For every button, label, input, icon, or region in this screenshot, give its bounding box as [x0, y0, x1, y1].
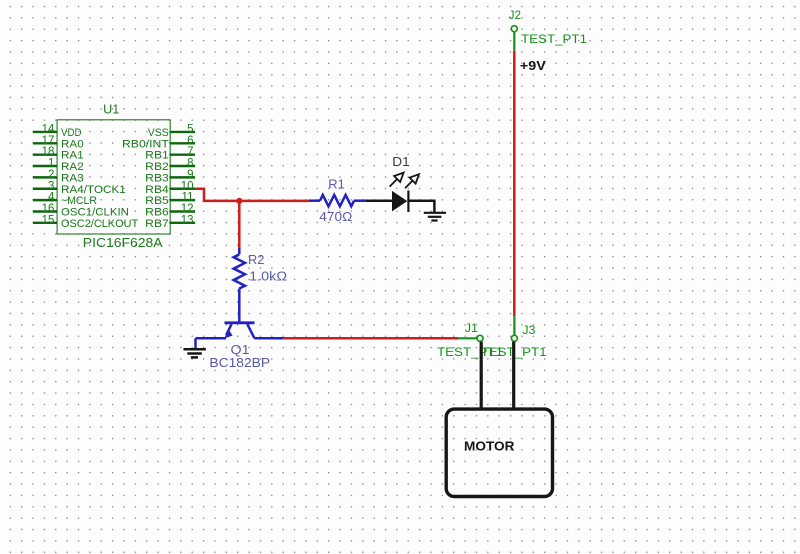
svg-text:13: 13: [181, 214, 194, 226]
svg-text:RB0/INT: RB0/INT: [122, 138, 169, 150]
svg-text:J2: J2: [509, 8, 522, 22]
svg-text:16: 16: [42, 203, 55, 215]
svg-text:OSC1/CLKIN: OSC1/CLKIN: [61, 206, 129, 218]
svg-text:11: 11: [182, 192, 194, 204]
svg-text:RA2: RA2: [61, 161, 84, 173]
svg-text:17: 17: [42, 135, 55, 147]
svg-text:TEST_PT1: TEST_PT1: [437, 345, 503, 359]
svg-text:RA4/TOCK1: RA4/TOCK1: [61, 184, 126, 196]
svg-text:4: 4: [48, 192, 55, 204]
svg-text:RA0: RA0: [61, 138, 84, 150]
svg-text:RB6: RB6: [145, 206, 169, 218]
svg-text:15: 15: [42, 214, 55, 226]
svg-text:10: 10: [181, 180, 194, 192]
svg-text:OSC2/CLKOUT: OSC2/CLKOUT: [61, 218, 138, 230]
svg-text:3: 3: [48, 180, 54, 192]
svg-text:D1: D1: [392, 155, 410, 169]
svg-text:MOTOR: MOTOR: [464, 439, 515, 454]
svg-text:12: 12: [181, 203, 194, 215]
svg-text:R2: R2: [248, 253, 264, 267]
svg-text:PIC16F628A: PIC16F628A: [83, 235, 163, 250]
svg-text:+9V: +9V: [520, 59, 547, 73]
svg-text:BC182BP: BC182BP: [209, 355, 270, 370]
svg-text:J1: J1: [465, 321, 479, 335]
svg-text:7: 7: [187, 146, 193, 158]
svg-text:RB4: RB4: [145, 184, 169, 196]
svg-text:6: 6: [187, 135, 193, 147]
svg-text:1.0kΩ: 1.0kΩ: [249, 269, 287, 284]
svg-text:VSS: VSS: [148, 127, 169, 139]
svg-text:8: 8: [187, 158, 193, 170]
svg-text:RA3: RA3: [61, 172, 84, 184]
svg-text:RB7: RB7: [145, 218, 169, 230]
svg-text:470Ω: 470Ω: [319, 209, 352, 224]
svg-text:RB5: RB5: [145, 195, 169, 207]
svg-text:RB2: RB2: [145, 161, 169, 173]
svg-text:14: 14: [42, 124, 55, 136]
svg-text:TEST_PT1: TEST_PT1: [521, 32, 587, 46]
svg-text:1: 1: [48, 158, 54, 170]
svg-text:RA1: RA1: [61, 150, 84, 162]
svg-text:2: 2: [48, 169, 54, 181]
svg-text:~MCLR: ~MCLR: [61, 195, 97, 207]
svg-text:9: 9: [187, 169, 193, 181]
svg-text:18: 18: [42, 146, 55, 158]
svg-text:U1: U1: [103, 103, 119, 117]
svg-text:R1: R1: [328, 178, 345, 192]
svg-text:5: 5: [187, 124, 193, 136]
svg-text:J3: J3: [522, 323, 536, 337]
svg-text:RB3: RB3: [145, 172, 169, 184]
svg-text:RB1: RB1: [145, 150, 169, 162]
svg-text:VDD: VDD: [61, 127, 82, 139]
